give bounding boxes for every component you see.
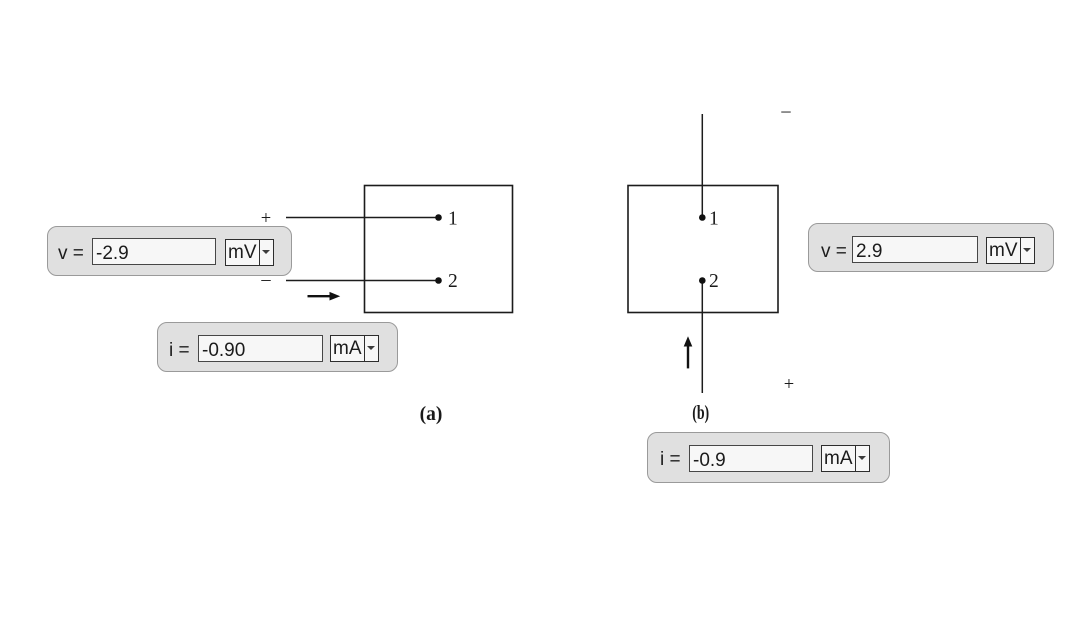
black box (a) — [365, 186, 513, 313]
svg-text:1: 1 — [448, 209, 458, 230]
wire to terminal 2 (a) — [286, 280, 438, 282]
label v= (b) — [821, 237, 847, 266]
label i= (b) — [660, 445, 681, 474]
svg-text:–: – — [780, 102, 791, 122]
label i= (a) — [169, 336, 190, 365]
value field i (a) — [198, 335, 323, 362]
input panel i (a) — [157, 322, 398, 372]
terminal node 1 (b) — [699, 214, 706, 221]
svg-text:1: 1 — [709, 209, 719, 230]
input panel i (b) — [647, 432, 890, 483]
input panel v (b) — [808, 223, 1054, 272]
wire to terminal 1 (a) — [286, 217, 438, 219]
unit dropdown mV (b) — [986, 237, 1035, 264]
label v= (a) — [58, 239, 84, 268]
terminal node 2 (a) — [435, 277, 442, 284]
terminal node 2 (b) — [699, 277, 706, 284]
svg-text:+: + — [784, 375, 794, 395]
value field i (b) — [689, 445, 813, 472]
unit dropdown mA (b) — [821, 445, 870, 472]
unit dropdown mV (a) — [225, 239, 274, 266]
current arrow i (a) — [308, 292, 341, 301]
black box (b) — [628, 186, 778, 313]
wire to terminal 2 (b) — [701, 281, 703, 394]
svg-text:(b): (b) — [692, 403, 709, 424]
value field v (a) — [92, 238, 216, 265]
value field v (b) — [852, 236, 978, 263]
svg-text:2: 2 — [709, 271, 719, 292]
terminal node 1 (a) — [435, 214, 442, 221]
svg-text:(a): (a) — [420, 404, 443, 425]
current arrow i (b) — [684, 336, 693, 368]
input panel v (a) — [47, 226, 292, 276]
unit dropdown mA (a) — [330, 335, 379, 362]
wire to terminal 1 (b) — [701, 114, 703, 217]
svg-text:2: 2 — [448, 271, 458, 292]
